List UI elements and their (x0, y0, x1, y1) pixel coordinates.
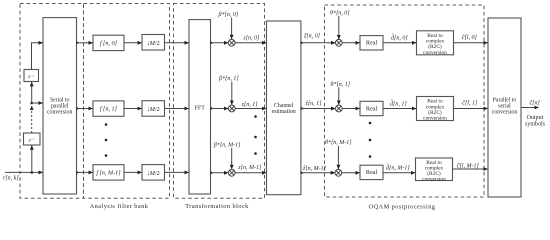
wire S/P to filter f[n,1] (77, 108, 93, 110)
svg-text:ĉ[l, 0]: ĉ[l, 0] (462, 35, 478, 41)
node S/P output row M-1 (76, 171, 78, 173)
wire input to serial-parallel converter (5, 171, 43, 173)
wire upper delay to top tap (32, 43, 43, 70)
dashed box: OQAM postprocessing (325, 5, 485, 197)
multiplier row 0 (OQAM) (335, 39, 342, 46)
wire Real to R2C row M-1 (383, 172, 415, 174)
svg-text:ẑ[n, 1]: ẑ[n, 1] (305, 101, 323, 107)
wire FFT to multiplier row 1 (211, 108, 229, 110)
wire delay chain ellipsis (dashed) (31, 106, 33, 133)
dashed box: transformation block (174, 4, 265, 199)
wire multiplier to Real row 1 (342, 108, 360, 110)
wire multiplier to Real row 0 (342, 42, 360, 44)
svg-text:d̂[n, M-1]: d̂[n, M-1] (386, 164, 410, 171)
wire R2C to P/S row 0 (454, 42, 488, 44)
ellipsis between Real rows (369, 122, 372, 158)
multiplier row M-1 (transformation) (228, 169, 235, 176)
dashed box: analysis filter bank (84, 4, 170, 199)
wire channel estimation to OQAM multiplier row 0 (301, 42, 335, 44)
filter f[n,M-1] (93, 165, 124, 180)
svg-text:FFT: FFT (195, 106, 206, 112)
multiplier row 1 (transformation) (228, 105, 235, 112)
svg-text:f [n, 1]: f [n, 1] (100, 106, 118, 113)
wire channel estimation to OQAM multiplier row 1 (301, 108, 335, 110)
node input branch (31, 171, 34, 174)
svg-text:Real: Real (366, 40, 378, 47)
FFT block (189, 20, 211, 194)
wire FFT to multiplier row M-1 (211, 172, 229, 174)
Real block row 1 (360, 101, 383, 115)
downsampler M/2 row M-1 (142, 165, 165, 181)
wire R2C to P/S row M-1 (453, 168, 488, 170)
svg-text:f [n, M-1]: f [n, M-1] (96, 169, 121, 176)
wire f[n,M-1] to downsampler (124, 171, 142, 173)
svg-text:z[n, M-1]: z[n, M-1] (237, 165, 262, 171)
filter f[n,1] (93, 101, 124, 116)
delay z^-1 upper (24, 70, 39, 82)
node FFT output row 0 (210, 42, 212, 44)
wire channel estimation to OQAM multiplier row M-1 (301, 172, 335, 174)
node S/P output row 0 (76, 42, 78, 44)
serial to parallel converter (43, 18, 77, 194)
downsampler M/2 row 1 (142, 101, 165, 117)
svg-text:↓M/2: ↓M/2 (147, 106, 160, 113)
downsampler M/2 row 0 (142, 35, 165, 51)
R2C block row 1 (417, 97, 454, 122)
svg-text:conversion: conversion (47, 109, 73, 115)
filter f[n,0] (93, 35, 124, 50)
svg-text:β∗[n, 0]: β∗[n, 0] (218, 11, 239, 18)
svg-text:↓M/2: ↓M/2 (147, 40, 160, 47)
wire multiplier to channel estimation row 1 (235, 108, 266, 110)
wire S/P to filter f[n,0] (77, 42, 93, 44)
wire theta arrow row M-1 (337, 146, 339, 169)
wire f[n,1] to downsampler (124, 108, 142, 110)
node FFT output row M-1 (210, 172, 212, 174)
wire multiplier to channel estimation row M-1 (235, 172, 266, 174)
svg-text:d̂[n, 0]: d̂[n, 0] (391, 34, 408, 41)
node S/P output row 1 (76, 107, 78, 109)
svg-text:Real: Real (366, 169, 378, 176)
multiplier row 1 (OQAM) (335, 105, 342, 112)
wire Real to R2C row 1 (383, 108, 416, 110)
svg-text:conversion: conversion (423, 116, 447, 122)
svg-text:ĉ[l, 1]: ĉ[l, 1] (462, 100, 478, 106)
wire multiplier to Real row M-1 (342, 172, 360, 174)
wire branch up to delay (31, 146, 33, 173)
wire Real to R2C row 0 (383, 42, 416, 44)
wire middle tap into serial-parallel converter (32, 102, 43, 104)
wire R2C to P/S row 1 (454, 108, 488, 110)
ellipsis between transformation rows (254, 115, 257, 155)
svg-text:symbols: symbols (525, 121, 546, 127)
wire FFT to multiplier row 0 (211, 42, 229, 44)
wire downsampler to FFT row 1 (165, 108, 189, 110)
delay z^-1 lower (24, 133, 41, 145)
dashed box: serial-to-parallel section (20, 4, 84, 199)
node channel output row 1 (300, 107, 302, 109)
svg-text:↓M/2: ↓M/2 (147, 170, 160, 177)
svg-text:conversion: conversion (423, 50, 447, 56)
wire theta arrow row 1 (338, 87, 340, 104)
wire beta arrow row 0 (231, 18, 233, 39)
channel estimation block (267, 21, 301, 195)
node FFT output row 1 (210, 107, 212, 109)
wire downsampler to FFT row 0 (165, 42, 189, 44)
svg-text:ẑ[n, M-1]: ẑ[n, M-1] (302, 166, 327, 172)
multiplier row 0 (transformation) (228, 39, 235, 46)
svg-text:z[n, 1]: z[n, 1] (241, 102, 259, 108)
wire f[n,0] to downsampler (124, 42, 142, 44)
svg-text:z[n, 0]: z[n, 0] (242, 35, 260, 41)
wire multiplier to channel estimation row 0 (235, 42, 266, 44)
svg-text:β∗[n, 1]: β∗[n, 1] (218, 76, 239, 83)
R2C block row 0 (417, 31, 454, 56)
wire output arrow (521, 107, 539, 109)
svg-text:OQAM postprocessing: OQAM postprocessing (369, 204, 436, 211)
Real block row 0 (360, 36, 383, 50)
svg-text:r[n, k]: r[n, k] (3, 176, 19, 182)
parallel to serial converter (488, 18, 521, 197)
svg-text:f [n, 0]: f [n, 0] (100, 40, 118, 47)
svg-text:Transformation block: Transformation block (185, 203, 249, 210)
wire beta arrow row 1 (231, 82, 233, 105)
node channel output row M-1 (300, 172, 302, 174)
R2C block row M-1 (416, 158, 453, 182)
wire middle tap up to upper delay (31, 82, 33, 103)
svg-text:conversion: conversion (422, 176, 446, 182)
svg-text:ẑ[n, 0]: ẑ[n, 0] (303, 34, 321, 40)
ellipsis between filters (105, 123, 108, 157)
svg-text:Output: Output (527, 115, 544, 121)
wire S/P to filter f[n,M-1] (77, 171, 93, 173)
wire beta arrow row M-1 (231, 148, 233, 169)
svg-text:d̂[n, 1]: d̂[n, 1] (390, 100, 407, 107)
svg-text:conversion: conversion (492, 109, 518, 115)
wire downsampler to FFT row M-1 (165, 171, 189, 173)
wire theta arrow row 0 (338, 16, 340, 39)
node middle tap (30, 102, 33, 105)
svg-text:Real: Real (366, 105, 378, 112)
Real block row M-1 (360, 165, 383, 179)
svg-text:ĉ[n]: ĉ[n] (530, 100, 541, 106)
svg-text:Analysis filter bank: Analysis filter bank (90, 203, 149, 210)
node channel output row 0 (300, 42, 302, 44)
multiplier row M-1 (OQAM) (335, 169, 342, 176)
svg-text:estimation: estimation (272, 109, 296, 115)
